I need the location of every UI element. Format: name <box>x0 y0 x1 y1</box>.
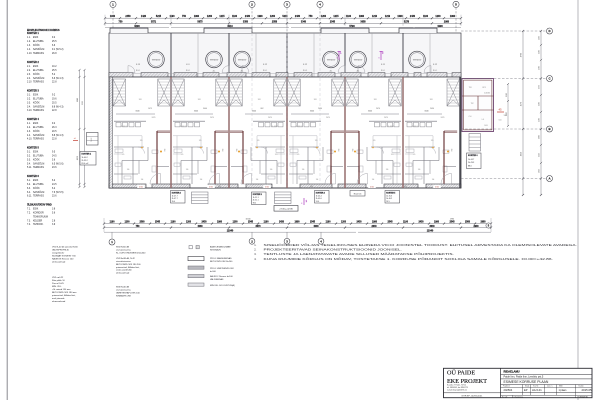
svg-text:RU-1: RU-1 <box>381 70 385 72</box>
svg-text:7.6 (W 5.5): 7.6 (W 5.5) <box>52 192 64 194</box>
svg-text:KORTER 2: KORTER 2 <box>27 62 39 64</box>
svg-text:KORTER 6: KORTER 6 <box>27 176 39 178</box>
svg-text:TERRASS: TERRASS <box>33 166 44 169</box>
svg-text:23.6: 23.6 <box>52 196 57 198</box>
svg-text:1503: 1503 <box>506 93 508 97</box>
svg-text:VS1 N-40 db u=0.04, E200: VS1 N-40 db u=0.04, E200 <box>52 247 78 249</box>
svg-text:2545: 2545 <box>155 221 161 224</box>
grid bubbles 1-5 <box>112 8 114 33</box>
svg-text:RU-2 6.6: RU-2 6.6 <box>354 193 362 195</box>
svg-text:primeeritud, lõõbitud toit,: primeeritud, lõõbitud toit, <box>116 266 140 269</box>
svg-text:3571: 3571 <box>151 22 157 24</box>
svg-text:2545: 2545 <box>248 221 254 224</box>
svg-text:1.9: 1.9 <box>431 140 434 142</box>
svg-text:1.5: 1.5 <box>413 154 416 156</box>
svg-text:ELUTUBA: ELUTUBA <box>33 69 44 72</box>
svg-text:K.O: K.O <box>186 64 190 66</box>
svg-text:1287: 1287 <box>506 112 508 116</box>
svg-text:91.5: 91.5 <box>386 201 390 203</box>
svg-text:ELUTUBA: ELUTUBA <box>33 183 44 186</box>
svg-text:KÖÖK: KÖÖK <box>33 44 40 47</box>
svg-text:6.2.: 6.2. <box>27 184 31 186</box>
svg-text:1.9: 1.9 <box>140 140 143 142</box>
svg-text:3600: 3600 <box>539 66 541 70</box>
svg-text:1.6: 1.6 <box>302 169 305 171</box>
svg-text:2430: 2430 <box>356 221 362 224</box>
svg-text:D: D <box>548 29 550 33</box>
svg-text:ESIK: ESIK <box>33 66 39 68</box>
svg-text:3350: 3350 <box>243 22 249 24</box>
bottom dimension chain <box>104 223 491 225</box>
svg-text:BETOONPLOKK 190 200: BETOONPLOKK 190 200 <box>116 264 141 266</box>
svg-text:2470: 2470 <box>210 117 214 119</box>
svg-text:mah jatoorde: mah jatoorde <box>52 297 65 300</box>
svg-text:VAHETESTAPLOKK 100: VAHETESTAPLOKK 100 <box>116 292 141 295</box>
svg-text:353: 353 <box>163 149 165 152</box>
svg-text:2470: 2470 <box>326 117 330 119</box>
svg-text:Fibo plokk 10: Fibo plokk 10 <box>52 280 66 282</box>
red level marks <box>137 185 145 188</box>
section marks K1 K2 <box>338 51 340 60</box>
svg-text:KORTER 4: KORTER 4 <box>27 118 39 121</box>
svg-text:1200: 1200 <box>539 102 541 106</box>
svg-text:3040: 3040 <box>135 111 139 113</box>
svg-text:ESIK: ESIK <box>33 94 39 96</box>
svg-text:3.4.: 3.4. <box>27 106 31 108</box>
stair blocks <box>158 79 171 106</box>
svg-text:TERRASS: TERRASS <box>33 109 44 112</box>
svg-text:SANSÕLM: SANSÕLM <box>33 48 44 51</box>
svg-text:3670: 3670 <box>255 226 261 228</box>
svg-text:1200: 1200 <box>207 16 213 18</box>
svg-text:1.1.: 1.1. <box>27 37 31 39</box>
svg-text:3.2.: 3.2. <box>27 98 31 100</box>
svg-text:353: 353 <box>450 149 452 152</box>
svg-text:Pr. juht: Pr. juht <box>502 395 508 398</box>
svg-text:5215: 5215 <box>156 16 162 18</box>
svg-text:siseväärisseina: siseväärisseina <box>116 249 131 251</box>
svg-text:5.2.: 5.2. <box>27 155 31 157</box>
svg-text:24.5: 24.5 <box>52 184 57 186</box>
svg-text:1.5: 1.5 <box>181 154 184 156</box>
svg-text:4.: 4. <box>254 257 256 261</box>
svg-text:6.6 (W 4.3): 6.6 (W 4.3) <box>52 78 64 80</box>
svg-text:ÜLDKASUTATAV PIND: ÜLDKASUTATAV PIND <box>27 204 52 207</box>
svg-text:KORTER 1: KORTER 1 <box>27 33 39 35</box>
svg-text:B: B <box>548 127 550 131</box>
svg-text:2k 39.2: 2k 39.2 <box>82 160 88 162</box>
svg-text:1.4.: 1.4. <box>27 49 31 51</box>
svg-text:1990: 1990 <box>359 16 365 18</box>
svg-text:3658: 3658 <box>360 22 366 24</box>
svg-text:A-1: A-1 <box>213 70 216 73</box>
svg-text:4.1.: 4.1. <box>27 123 31 125</box>
svg-text:1k 47.7: 1k 47.7 <box>172 195 178 197</box>
svg-text:KÖÖK: KÖÖK <box>33 158 40 161</box>
svg-text:2k 47.7: 2k 47.7 <box>172 198 178 200</box>
svg-text:C.4: C.4 <box>469 116 472 118</box>
svg-text:4020: 4020 <box>539 169 541 173</box>
svg-text:TEHNOR.: TEHNOR. <box>33 224 44 226</box>
svg-text:1990: 1990 <box>294 222 300 224</box>
section mark right <box>497 111 504 113</box>
svg-text:RU-1: RU-1 <box>263 70 267 72</box>
svg-text:8.8 (W 4.3): 8.8 (W 4.3) <box>52 135 64 137</box>
svg-text:11040: 11040 <box>427 229 434 232</box>
svg-text:5.11.: 5.11. <box>27 167 32 169</box>
svg-text:3610: 3610 <box>227 25 233 28</box>
svg-text:3.10.: 3.10. <box>27 110 32 112</box>
level box <box>274 206 298 212</box>
left dim chain <box>79 70 81 187</box>
svg-text:353: 353 <box>235 149 237 152</box>
svg-text:+9.30=+42.86: +9.30=+42.86 <box>279 209 293 211</box>
main body outline <box>109 77 461 188</box>
svg-text:2430: 2430 <box>279 221 285 224</box>
svg-text:2430: 2430 <box>418 221 424 224</box>
svg-text:0.00: 0.00 <box>370 186 374 188</box>
svg-text:KEIGSAUN: KEIGSAUN <box>210 249 221 252</box>
svg-text:KORTER 4: KORTER 4 <box>316 191 325 194</box>
svg-text:L-1: L-1 <box>482 119 485 121</box>
svg-text:4020: 4020 <box>77 156 79 160</box>
svg-text:6.3.: 6.3. <box>27 188 31 190</box>
svg-text:ELUTUBA: ELUTUBA <box>33 126 44 129</box>
svg-text:BALROC Renove b=100: BALROC Renove b=100 <box>210 275 234 278</box>
svg-text:olemasolevad: olemasolevad <box>52 301 66 303</box>
svg-text:KORTER 3: KORTER 3 <box>27 91 39 93</box>
svg-text:Joon. n.: Joon. n. <box>547 386 553 388</box>
svg-text:95.4: 95.4 <box>172 201 176 203</box>
svg-text:3.3.: 3.3. <box>27 102 31 104</box>
svg-text:1.5: 1.5 <box>275 154 278 156</box>
svg-text:23.6: 23.6 <box>52 167 57 169</box>
svg-text:5.3.: 5.3. <box>27 159 31 161</box>
svg-text:1200: 1200 <box>341 222 347 224</box>
svg-text:1.6: 1.6 <box>418 169 421 171</box>
svg-text:2470: 2470 <box>268 117 272 119</box>
svg-text:1230: 1230 <box>82 101 84 105</box>
svg-text:T. Kantereva: T. Kantereva <box>514 395 524 398</box>
svg-text:1210: 1210 <box>372 16 378 18</box>
svg-text:Tcr). Nr.: Tcr). Nr. <box>533 386 539 388</box>
svg-text:26.3: 26.3 <box>52 127 57 129</box>
svg-text:3640: 3640 <box>429 225 435 228</box>
svg-text:3040: 3040 <box>203 108 207 110</box>
svg-text:2.2.: 2.2. <box>27 70 31 72</box>
svg-text:1.1 1.2: 1.1 1.2 <box>296 126 301 128</box>
svg-text:2.: 2. <box>254 248 256 252</box>
svg-text:3040: 3040 <box>194 111 198 113</box>
svg-text:KÖÖK: KÖÖK <box>33 101 40 104</box>
svg-text:SS2 R=60 dB: SS2 R=60 dB <box>116 247 130 249</box>
svg-text:1.4: 1.4 <box>316 179 319 181</box>
svg-text:4020: 4020 <box>521 152 523 156</box>
bottom exterior wall <box>109 184 146 188</box>
svg-text:KL.OLEV KRUSSEIN 250x400: KL.OLEV KRUSSEIN 250x400 <box>116 252 146 254</box>
svg-text:1.1 1.2: 1.1 1.2 <box>180 126 185 128</box>
svg-text:KÖÖK: KÖÖK <box>33 187 40 190</box>
svg-text:2470: 2470 <box>384 117 388 119</box>
svg-text:TERRASS: TERRASS <box>33 138 44 141</box>
terrace dividers <box>170 33 172 77</box>
svg-text:1.4: 1.4 <box>200 179 203 181</box>
svg-text:ESIK: ESIK <box>33 37 39 39</box>
svg-text:5215: 5215 <box>282 16 288 18</box>
svg-text:5278: 5278 <box>404 22 410 24</box>
svg-text:3040: 3040 <box>252 111 256 113</box>
svg-text:3040: 3040 <box>368 111 372 113</box>
svg-text:1190: 1190 <box>264 222 270 224</box>
svg-text:1190: 1190 <box>423 16 429 18</box>
svg-text:6.5 (W 5.6): 6.5 (W 5.6) <box>52 163 64 165</box>
svg-text:1.6: 1.6 <box>386 169 389 171</box>
svg-text:2980: 2980 <box>450 219 454 221</box>
svg-text:BETOONPLOKK 190 mm: BETOONPLOKK 190 mm <box>52 292 77 294</box>
svg-text:1:plaan: 1:plaan <box>559 389 568 392</box>
svg-text:1990: 1990 <box>437 25 443 28</box>
svg-text:1990: 1990 <box>434 222 440 224</box>
svg-text:3.: 3. <box>254 252 256 256</box>
svg-text:2930: 2930 <box>473 226 479 228</box>
entrance steps <box>192 192 209 204</box>
svg-text:1k 40.2: 1k 40.2 <box>82 157 88 159</box>
svg-text:1.6: 1.6 <box>270 169 273 171</box>
svg-text:SANSÕLM: SANSÕLM <box>33 77 44 80</box>
svg-text:värvgelkrohv: värvgelkrohv <box>52 253 65 255</box>
svg-text:SANSÕLM: SANSÕLM <box>33 162 44 165</box>
svg-text:olemasolevad: olemasolevad <box>52 262 66 264</box>
svg-text:25.5: 25.5 <box>52 41 57 43</box>
svg-text:KINNASPLOKK: KINNASPLOKK <box>116 295 132 298</box>
svg-text:VALISSEINAS: VALISSEINAS <box>210 278 224 281</box>
svg-text:TEHNORUUM: TEHNORUUM <box>33 216 48 218</box>
svg-text:SANSÕLM: SANSÕLM <box>33 134 44 137</box>
svg-text:5.1.: 5.1. <box>27 151 31 153</box>
svg-text:VS2 u=0.22: VS2 u=0.22 <box>52 277 64 279</box>
svg-text:4790: 4790 <box>521 53 523 57</box>
svg-text:A-1: A-1 <box>330 70 333 73</box>
svg-text:1215: 1215 <box>219 16 225 18</box>
svg-text:1.6: 1.6 <box>127 169 130 171</box>
svg-text:7.3.: 7.3. <box>27 220 31 222</box>
svg-text:2430: 2430 <box>410 15 416 18</box>
svg-text:1190: 1190 <box>171 222 177 224</box>
svg-text:PROJ. KANDESEINAD: PROJ. KANDESEINAD <box>210 257 232 260</box>
svg-text:2980: 2980 <box>444 22 450 24</box>
svg-text:1.1 1.2: 1.1 1.2 <box>121 126 126 128</box>
svg-text:VS1: VS1 <box>218 186 221 188</box>
svg-text:6.11.: 6.11. <box>27 196 32 198</box>
svg-text:19.6: 19.6 <box>52 98 57 100</box>
svg-text:KORTER 2: KORTER 2 <box>172 192 181 194</box>
svg-text:2558: 2558 <box>272 22 278 24</box>
svg-text:2450: 2450 <box>125 15 131 18</box>
svg-text:ELUTUBA: ELUTUBA <box>33 154 44 157</box>
svg-text:1.5: 1.5 <box>391 154 394 156</box>
svg-text:5875: 5875 <box>197 22 203 24</box>
right gable wall <box>459 77 461 188</box>
svg-text:1190: 1190 <box>110 222 116 224</box>
korter 6 info box <box>467 153 482 169</box>
svg-text:1000: 1000 <box>539 135 541 139</box>
svg-text:e-mail ekeprojekt@tln.ee: e-mail ekeprojekt@tln.ee <box>447 388 467 391</box>
svg-text:1990: 1990 <box>450 16 456 18</box>
annex room <box>462 79 494 132</box>
svg-text:ELUTUBA: ELUTUBA <box>33 97 44 100</box>
svg-text:11840: 11840 <box>227 229 234 232</box>
svg-text:1990: 1990 <box>372 222 378 224</box>
RU-2 box <box>350 191 365 197</box>
svg-text:22.8: 22.8 <box>52 82 57 84</box>
svg-text:SILIKAAT KIVIDEST 700: SILIKAAT KIVIDEST 700 <box>52 255 76 258</box>
section mark bottom <box>303 198 305 205</box>
svg-text:1.9: 1.9 <box>315 140 318 142</box>
svg-text:45: 45 <box>498 108 502 112</box>
bottom info boxes <box>171 191 186 204</box>
svg-text:0.00: 0.00 <box>265 186 269 188</box>
svg-text:1219: 1219 <box>385 16 391 18</box>
svg-text:TERRASS: TERRASS <box>33 195 44 198</box>
svg-text:+Si seinad 150 mm: +Si seinad 150 mm <box>52 289 71 291</box>
svg-text:7.2.: 7.2. <box>27 212 31 214</box>
svg-text:4.4.: 4.4. <box>27 135 31 137</box>
svg-text:1190: 1190 <box>403 222 409 224</box>
svg-text:AVA ELEVASDUVABE: AVA ELEVASDUVABE <box>210 246 231 249</box>
svg-text:KORIDOR: KORIDOR <box>33 212 44 214</box>
svg-text:1200: 1200 <box>186 222 192 224</box>
svg-text:1200: 1200 <box>539 50 541 54</box>
svg-text:OÜ PAIDE: OÜ PAIDE <box>447 370 475 377</box>
svg-text:VS1: VS1 <box>310 186 313 188</box>
svg-text:MIN.VILL SOOJUSTUS(A): MIN.VILL SOOJUSTUS(A) <box>210 284 235 287</box>
sheet right border <box>577 0 579 400</box>
svg-text:1990: 1990 <box>257 16 263 18</box>
svg-text:1.4: 1.4 <box>372 179 375 181</box>
svg-text:sealt. juurdevõte: sealt. juurdevõte <box>116 269 133 272</box>
svg-text:DO6: DO6 <box>484 125 487 127</box>
svg-text:862: 862 <box>261 108 264 110</box>
svg-text:1.5: 1.5 <box>297 154 300 156</box>
svg-text:1.6: 1.6 <box>186 169 189 171</box>
svg-text:1200: 1200 <box>435 16 441 18</box>
svg-text:RU-1: RU-1 <box>136 70 140 72</box>
svg-text:BETOONPLOKK B=240: BETOONPLOKK B=240 <box>210 261 233 263</box>
svg-text:SS3 R=40 dB: SS3 R=40 dB <box>116 287 130 289</box>
svg-text:1190: 1190 <box>232 16 238 18</box>
svg-text:PROJEKTEERITAVAD SEINAKONSTRUK: PROJEKTEERITAVAD SEINAKONSTRUKTSIOONID J… <box>264 248 403 252</box>
svg-text:TERRASS: TERRASS <box>33 52 44 55</box>
svg-text:2k 43.3: 2k 43.3 <box>468 162 474 164</box>
svg-text:202504: 202504 <box>504 388 513 392</box>
svg-text:MTR EP-10293-0001: MTR EP-10293-0001 <box>462 395 483 397</box>
svg-text:1.1 1.2: 1.1 1.2 <box>388 126 393 128</box>
svg-text:1990: 1990 <box>217 222 223 224</box>
svg-text:RAUROK Renove 100: RAUROK Renove 100 <box>52 258 74 261</box>
svg-text:2k 46.2: 2k 46.2 <box>386 198 392 200</box>
svg-text:2560: 2560 <box>465 222 471 224</box>
svg-text:TERRASS: TERRASS <box>33 81 44 84</box>
svg-text:1k 44.7: 1k 44.7 <box>468 159 474 161</box>
svg-text:4030: 4030 <box>313 225 319 228</box>
svg-text:2430: 2430 <box>201 221 207 224</box>
svg-text:1.4: 1.4 <box>432 179 435 181</box>
svg-text:8.8 (W 4.3): 8.8 (W 4.3) <box>52 106 64 108</box>
svg-text:2430: 2430 <box>295 15 301 18</box>
svg-text:0.00: 0.00 <box>139 186 143 188</box>
legend swatches <box>189 246 192 249</box>
svg-text:1190: 1190 <box>169 16 175 18</box>
svg-text:6.1.: 6.1. <box>27 180 31 182</box>
svg-text:353: 353 <box>221 149 223 152</box>
svg-text:2430: 2430 <box>245 15 251 18</box>
svg-text:24.5: 24.5 <box>52 155 57 157</box>
svg-text:1075: 1075 <box>148 108 152 110</box>
svg-text:3040: 3040 <box>424 111 428 113</box>
left gable wall <box>109 77 112 188</box>
svg-text:4060: 4060 <box>197 225 203 228</box>
svg-text:2k 45.6: 2k 45.6 <box>316 198 322 200</box>
svg-text:HA-5-01: HA-5-01 <box>532 388 542 392</box>
svg-text:1.5: 1.5 <box>122 154 125 156</box>
title block <box>444 368 593 397</box>
svg-text:2.10: 2.10 <box>27 82 32 84</box>
svg-text:1k 51.1: 1k 51.1 <box>253 197 259 199</box>
svg-text:RU-3: RU-3 <box>303 70 307 72</box>
svg-text:7.1.: 7.1. <box>27 208 31 210</box>
svg-text:1.10.: 1.10. <box>27 53 32 55</box>
svg-text:2545: 2545 <box>330 21 336 24</box>
svg-text:2470: 2470 <box>441 117 445 119</box>
right dim chains <box>522 31 524 195</box>
svg-text:1200: 1200 <box>270 16 276 18</box>
svg-text:1.: 1. <box>254 243 256 247</box>
svg-text:6290: 6290 <box>134 25 140 28</box>
svg-text:1.2.: 1.2. <box>27 41 31 43</box>
svg-text:26.8: 26.8 <box>52 53 57 55</box>
svg-text:siseväärisseina: siseväärisseina <box>116 261 131 263</box>
svg-text:VC1: VC1 <box>482 87 485 89</box>
svg-text:1190: 1190 <box>346 16 352 18</box>
svg-text:4.3.: 4.3. <box>27 131 31 133</box>
svg-text:3.1.: 3.1. <box>27 94 31 96</box>
svg-text:ELUTUBA: ELUTUBA <box>33 40 44 43</box>
svg-text:EP: EP <box>524 388 528 392</box>
svg-text:2545: 2545 <box>387 221 393 224</box>
svg-text:RIDAELAMU: RIDAELAMU <box>504 369 520 373</box>
svg-text:1.9: 1.9 <box>199 140 202 142</box>
svg-text:6940: 6940 <box>77 98 79 102</box>
svg-text:2k 51.1: 2k 51.1 <box>253 200 259 202</box>
svg-text:ESIK: ESIK <box>33 151 39 153</box>
svg-text:2640: 2640 <box>371 225 377 228</box>
svg-text:4.10.: 4.10. <box>27 139 32 141</box>
svg-text:ESIK: ESIK <box>33 208 39 210</box>
svg-text:1200: 1200 <box>232 222 238 224</box>
svg-text:1.4: 1.4 <box>141 179 144 181</box>
svg-text:5.4.: 5.4. <box>27 163 31 165</box>
terrace band outline <box>109 33 461 77</box>
svg-text:20.5: 20.5 <box>52 131 57 133</box>
svg-text:VS1: VS1 <box>404 186 407 188</box>
svg-text:2545: 2545 <box>310 221 316 224</box>
svg-text:1090: 1090 <box>397 16 403 18</box>
svg-text:1.9: 1.9 <box>257 140 260 142</box>
svg-text:RU-1: RU-1 <box>433 70 437 72</box>
svg-text:4190: 4190 <box>539 36 541 40</box>
svg-text:VALTSPROFIILID: VALTSPROFIILID <box>52 249 69 252</box>
svg-text:MIN. VILL: MIN. VILL <box>52 286 62 288</box>
